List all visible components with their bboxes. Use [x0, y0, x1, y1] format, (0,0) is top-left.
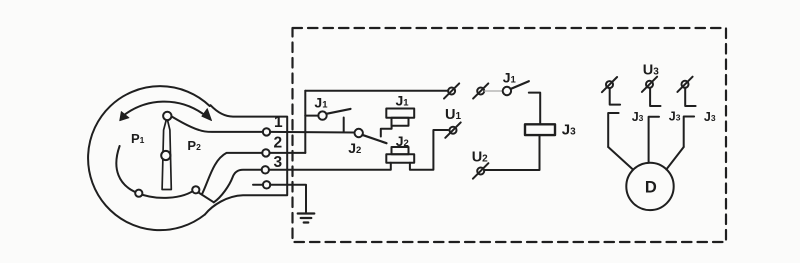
- row1 wire into box to J2 pivot: [270, 131, 355, 134]
- J3 contact phase3: [685, 88, 695, 106]
- dashed enclosure box: [293, 28, 727, 242]
- ground: [298, 214, 315, 223]
- contact block J2 stem: [392, 147, 409, 154]
- svg-text:J3: J3: [704, 110, 716, 124]
- curve B to row3: [214, 170, 262, 203]
- top wire to terminal A: [305, 90, 448, 92]
- phase1 diagonal to motor: [608, 147, 633, 169]
- switch J1 right: pivot: [503, 87, 511, 95]
- switch J2 blade: [363, 135, 387, 143]
- curve A to row2: [202, 153, 263, 195]
- relay coil J3: [525, 124, 555, 135]
- needle pivot circle: [161, 151, 170, 160]
- dial arc: [116, 146, 196, 198]
- arrow head left: [120, 112, 129, 121]
- arrow head right: [202, 109, 212, 121]
- terminal 3 circle: [262, 166, 269, 173]
- contact dot P1 side: [135, 190, 142, 197]
- contact block J1 stem: [392, 118, 409, 126]
- inner circuit: bus: [304, 91, 306, 153]
- svg-text:3: 3: [274, 154, 283, 171]
- switch J1 left pivot: [318, 111, 326, 119]
- phase3 diagonal to motor: [666, 147, 683, 169]
- terminal T2: [646, 81, 653, 88]
- gauge case horn outline: [205, 105, 287, 214]
- block right stem loop to U1: [410, 130, 448, 170]
- row4 wire to ground: [270, 185, 306, 212]
- wire: needle contact to row1: [172, 116, 264, 131]
- terminal 2 circle: [262, 149, 269, 156]
- needle top contact circle: [163, 112, 171, 120]
- faint link wire: [484, 90, 503, 92]
- svg-text:J3: J3: [632, 110, 644, 124]
- terminal T3: [682, 81, 689, 88]
- gauge outer circle: [88, 86, 210, 230]
- wire: P2 dot diagonal: [199, 193, 214, 203]
- needle body: [162, 118, 171, 190]
- svg-text:2: 2: [274, 135, 283, 152]
- contact block J1 wide plate: [386, 109, 414, 118]
- step zigzag J2 fixed contact: [381, 126, 392, 137]
- svg-text:D: D: [645, 179, 657, 197]
- contact block J2 wide plate: [386, 154, 414, 163]
- switch J1 blade: [511, 81, 529, 89]
- switch J1 left: wire: [305, 115, 318, 117]
- terminal A: [448, 88, 455, 95]
- terminal B: [477, 88, 484, 95]
- terminal 1 circle: [263, 128, 270, 135]
- arrow arc: [124, 102, 203, 116]
- motor circle: [626, 163, 673, 210]
- J3 contact phase2: [650, 88, 660, 106]
- terminal U2: [477, 168, 484, 175]
- terminal 4 circle: [263, 181, 270, 188]
- svg-text:1: 1: [274, 114, 283, 131]
- svg-text:J3: J3: [669, 109, 681, 123]
- right section: terminal T1: [606, 81, 613, 88]
- row4 stub: [253, 184, 263, 186]
- J1 fixed wire to coil: [529, 93, 540, 125]
- terminal U1: [450, 127, 457, 134]
- row2 wire to bus: [269, 152, 305, 154]
- contact dot P2 side: [192, 186, 199, 193]
- switch J1 left fixed contact tick: [343, 118, 345, 132]
- row3 long wire to J2 block stem: [269, 163, 391, 170]
- switch J1 left blade: [326, 109, 350, 114]
- switch J2: pivot: [355, 129, 363, 137]
- J3 contact phase1: [610, 88, 620, 105]
- coil to U2: [484, 135, 539, 170]
